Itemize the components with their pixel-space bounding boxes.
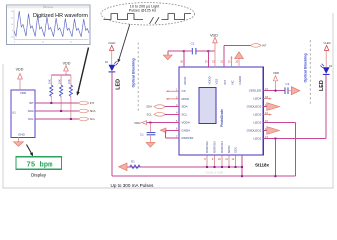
ground right of C3: [291, 87, 300, 95]
VDD supply at VDDLED: [273, 71, 280, 92]
svg-text:SDA: SDA: [182, 105, 188, 109]
svg-text:VDD: VDD: [210, 33, 218, 37]
chip U2 Si118x body: [179, 67, 263, 155]
svg-text:INT: INT: [29, 101, 34, 105]
ground arrow left of R1: [119, 163, 127, 171]
pull-up VDD rail: [51, 61, 71, 75]
svg-text:U1: U1: [12, 111, 16, 115]
svg-text:RSRVD1: RSRVD1: [182, 136, 194, 140]
wire INT bus: [35, 102, 79, 104]
bottom pin 13 stub long: [241, 155, 243, 176]
svg-text:MOSI: MOSI: [227, 145, 231, 153]
dashed ellipse annotation: [101, 3, 195, 63]
svg-text:EPAD: EPAD: [183, 77, 187, 85]
chip left pin names: [182, 89, 194, 140]
VDDD wire: [207, 50, 209, 67]
NC stub top: [230, 56, 232, 68]
LED4 stub: [263, 98, 272, 100]
svg-text:SDA: SDA: [28, 109, 34, 113]
chip bottom pin names: [205, 141, 238, 153]
frame border: [3, 13, 333, 188]
resistor R2: [48, 75, 53, 103]
svg-text:INT: INT: [90, 101, 95, 105]
pulse waveform: [104, 14, 192, 20]
svg-text:Up to 300 mA Pulses: Up to 300 mA Pulses: [111, 183, 155, 188]
net label INT: [78, 101, 94, 105]
LED1 wire to right LED: [263, 74, 326, 176]
junction dots L1: [206, 166, 243, 168]
svg-text:VDDA: VDDA: [182, 121, 190, 125]
VDD supply above MCU: [16, 68, 24, 91]
svg-text:VDD: VDD: [134, 121, 141, 125]
arrow MCU to display: [27, 145, 34, 157]
svg-text:GND: GND: [18, 133, 26, 137]
VDD supply at top rail: [210, 33, 218, 67]
bottom pin stubs: [207, 155, 236, 167]
bottom wire L1: [121, 166, 243, 168]
svg-text:GNDA: GNDA: [182, 128, 191, 132]
chip right pin numbers: [265, 87, 268, 139]
capacitor C3: [285, 82, 300, 95]
svg-text:Digitized HR waveform: Digitized HR waveform: [33, 13, 88, 19]
GNDD ground arrow up: [235, 52, 244, 67]
VDDLED wire: [263, 90, 284, 92]
resistor R1: [130, 160, 140, 169]
capacitor C2: [191, 42, 196, 55]
svg-text:GNDLED1: GNDLED1: [247, 129, 262, 133]
svg-text:-1k: -1k: [10, 37, 13, 39]
net label SCL to chip: [147, 112, 179, 116]
VDD at VDDA pin: [134, 121, 179, 125]
CS stub: [166, 90, 179, 92]
svg-text:R1: R1: [131, 160, 135, 164]
junction dots on bus: [50, 102, 72, 120]
svg-text:LED4: LED4: [254, 97, 262, 101]
leader arrow to LED D1: [119, 24, 130, 60]
svg-text:SCL: SCL: [147, 112, 153, 116]
svg-text:VDDD: VDDD: [207, 76, 211, 84]
wire SDA bus: [35, 110, 79, 112]
svg-text:LED2: LED2: [254, 121, 262, 125]
net label SCL: [78, 117, 95, 121]
svg-text:3k: 3k: [11, 11, 13, 13]
chip bottom pin numbers: [204, 158, 234, 161]
svg-text:VSS: VSS: [215, 79, 219, 85]
GNDLED2 ground arrow: [263, 103, 279, 111]
LED2 wire to left LED return: [263, 123, 295, 177]
svg-text:C3: C3: [286, 82, 290, 86]
svg-text:LED3: LED3: [254, 113, 262, 117]
net label SDA to chip: [146, 105, 179, 109]
optical blocking left: [131, 43, 138, 112]
chip left pin numbers: [176, 88, 178, 139]
svg-text:GNDD: GNDD: [238, 76, 242, 85]
svg-text:SDA: SDA: [90, 109, 96, 113]
MCU U1: [11, 90, 35, 137]
svg-text:4s: 4s: [70, 42, 72, 44]
wire SCL bus: [35, 118, 79, 120]
svg-text:VLED: VLED: [323, 41, 330, 45]
svg-text:C2: C2: [191, 42, 195, 46]
svg-text:SCL: SCL: [182, 112, 188, 116]
svg-text:VDD: VDD: [16, 68, 24, 72]
svg-text:2k: 2k: [11, 17, 13, 19]
svg-text:RSRVD3: RSRVD3: [213, 141, 217, 153]
capacitor C1: [140, 123, 155, 148]
display box 75 bpm: [16, 157, 62, 178]
GNDLED1 ground arrow: [263, 127, 279, 135]
chip right pin names: [247, 89, 262, 141]
svg-text:SCK: SCK: [234, 147, 238, 153]
EPAD wire: [183, 50, 185, 67]
ground under C1: [146, 142, 155, 147]
svg-text:Si118x: Si118x: [255, 163, 270, 168]
chip top pin names: [183, 76, 242, 85]
svg-text:LED: LED: [319, 80, 325, 91]
svg-text:10K: 10K: [57, 79, 61, 84]
svg-text:VDD: VDD: [20, 91, 27, 95]
LED3 stub: [263, 113, 272, 115]
svg-text:LED1: LED1: [254, 137, 262, 141]
chip top pin numbers: [180, 60, 239, 63]
svg-text:RSRVD2: RSRVD2: [205, 141, 209, 153]
LED D1 (left): [105, 41, 121, 176]
svg-text:VDD: VDD: [63, 61, 71, 65]
MISO stub: [166, 98, 179, 100]
RSRVD1 wire to GNDA net: [166, 130, 179, 138]
bottom return wire L2: [112, 175, 296, 177]
svg-text:HR curve: HR curve: [43, 6, 54, 9]
svg-text:75 bpm: 75 bpm: [27, 161, 54, 169]
photodiode block: [199, 88, 224, 128]
svg-text:CS: CS: [182, 89, 186, 93]
svg-text:C1: C1: [140, 132, 144, 136]
svg-text:10K: 10K: [48, 79, 52, 84]
LED D2 (right): [319, 41, 333, 91]
svg-text:NC: NC: [231, 80, 235, 84]
top rail wire with C2: [168, 51, 215, 55]
optical blocking right: [304, 40, 311, 106]
svg-text:SCL: SCL: [90, 117, 96, 121]
svg-text:SCL: SCL: [28, 117, 34, 121]
svg-text:Optical Blocking: Optical Blocking: [304, 53, 308, 82]
svg-text:VDD: VDD: [273, 71, 280, 75]
resistor R4: [67, 75, 72, 119]
net label SDA: [78, 109, 95, 113]
svg-text:Optical Blocking: Optical Blocking: [131, 58, 135, 87]
svg-text:PhotoDiode: PhotoDiode: [220, 109, 224, 127]
svg-text:Pulses @125 Hz: Pulses @125 Hz: [129, 9, 157, 13]
svg-text:Display: Display: [31, 173, 47, 178]
resistor R3: [57, 75, 62, 111]
svg-text:Si118x-A-GMR: Si118x-A-GMR: [206, 171, 224, 175]
svg-text:INT: INT: [223, 80, 227, 85]
svg-text:GNDLED2: GNDLED2: [247, 105, 262, 109]
svg-text:2s: 2s: [42, 42, 44, 44]
annotation arrow chart to INT bus: [77, 48, 89, 96]
svg-text:1k: 1k: [11, 24, 13, 26]
ground below MCU: [14, 137, 24, 146]
ground left of C2: [163, 55, 172, 60]
svg-text:MISO: MISO: [182, 97, 190, 101]
svg-text:LED: LED: [115, 79, 121, 90]
svg-text:VDDLED: VDDLED: [249, 89, 262, 93]
svg-text:SDA: SDA: [146, 105, 152, 109]
svg-text:INT: INT: [262, 44, 267, 48]
svg-text:RSRVD4: RSRVD4: [220, 141, 224, 153]
GNDA ground arrow: [160, 128, 179, 133]
svg-text:10K: 10K: [67, 79, 71, 84]
INT pin wire to net label: [224, 44, 267, 68]
waveform chart: [7, 5, 91, 45]
